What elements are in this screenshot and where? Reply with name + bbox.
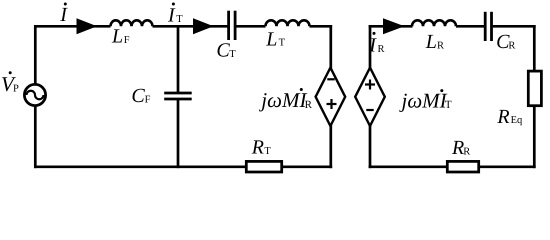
svg-text:I: I: [368, 34, 377, 56]
svg-text:R: R: [437, 40, 444, 51]
plus sign: [327, 99, 337, 109]
svg-text:I: I: [59, 4, 68, 26]
svg-text:T: T: [279, 38, 286, 49]
wire: [34, 25, 110, 28]
dependent source jwMIR: [316, 68, 346, 126]
label CF: [131, 85, 150, 107]
svg-text:F: F: [145, 94, 151, 105]
label CR: [496, 31, 515, 53]
wire: [329, 124, 332, 168]
wire: [369, 25, 372, 70]
svg-text:P: P: [13, 84, 19, 95]
svg-text:jωMI: jωMI: [399, 88, 448, 112]
wire: [34, 165, 247, 168]
wire: [177, 26, 180, 93]
capacitor CR: [485, 12, 491, 41]
label LR: [425, 31, 444, 53]
wire: [456, 25, 484, 28]
svg-text:R: R: [305, 99, 313, 111]
wire: [281, 165, 332, 168]
node IT: [167, 3, 183, 27]
voltage source VP: [24, 84, 45, 105]
resistor RT: [246, 161, 281, 172]
wire: [493, 25, 536, 28]
wire: [329, 25, 332, 70]
label jwMIR: [258, 88, 312, 112]
wire: [177, 98, 180, 168]
minus sign: [327, 78, 334, 80]
svg-text:L: L: [111, 26, 123, 48]
label RT: [251, 136, 272, 158]
wire: [34, 25, 37, 85]
svg-text:R: R: [451, 137, 464, 159]
wire: [34, 106, 37, 169]
wire: [236, 25, 266, 28]
arrow current IT: [193, 18, 214, 34]
svg-text:L: L: [265, 28, 277, 50]
wire: [369, 124, 372, 168]
label LF: [111, 26, 130, 48]
label VP: [1, 71, 19, 96]
capacitor CF: [164, 93, 192, 99]
svg-text:C: C: [131, 85, 145, 107]
wire: [533, 105, 536, 169]
svg-text:F: F: [124, 35, 130, 46]
inductor LR: [412, 20, 456, 26]
svg-text:T: T: [445, 99, 452, 111]
inductor LT: [266, 20, 310, 26]
svg-text:R: R: [251, 136, 264, 158]
label REq: [496, 106, 523, 128]
plus sign: [365, 80, 375, 90]
wire: [369, 25, 413, 28]
svg-text:R: R: [463, 146, 470, 157]
svg-text:Eq: Eq: [511, 115, 523, 126]
minus sign: [366, 109, 373, 111]
label jwMIT: [399, 88, 452, 112]
svg-text:jωMI: jωMI: [258, 88, 307, 112]
arrow current IR: [383, 18, 405, 34]
wire: [533, 25, 536, 72]
wire: [478, 165, 536, 168]
svg-text:T: T: [264, 146, 271, 157]
wire: [310, 25, 333, 28]
label CT: [216, 40, 236, 62]
wire: [153, 25, 228, 28]
svg-text:T: T: [176, 14, 183, 25]
label RR: [451, 137, 470, 159]
label IR (current IR): [368, 32, 384, 57]
arrow current I: [77, 18, 98, 34]
svg-text:I: I: [167, 5, 176, 27]
svg-text:R: R: [508, 40, 515, 51]
label I (current I): [59, 3, 68, 27]
resistor RR: [447, 161, 478, 172]
svg-text:L: L: [425, 31, 437, 53]
dependent source jwMIT: [355, 68, 385, 126]
label LT: [265, 28, 285, 50]
wire: [369, 165, 448, 168]
inductor LF: [111, 20, 153, 26]
resistor REq: [528, 71, 541, 106]
svg-text:T: T: [229, 49, 236, 60]
capacitor CT: [229, 11, 236, 40]
svg-text:R: R: [378, 44, 385, 55]
svg-text:R: R: [496, 106, 509, 128]
